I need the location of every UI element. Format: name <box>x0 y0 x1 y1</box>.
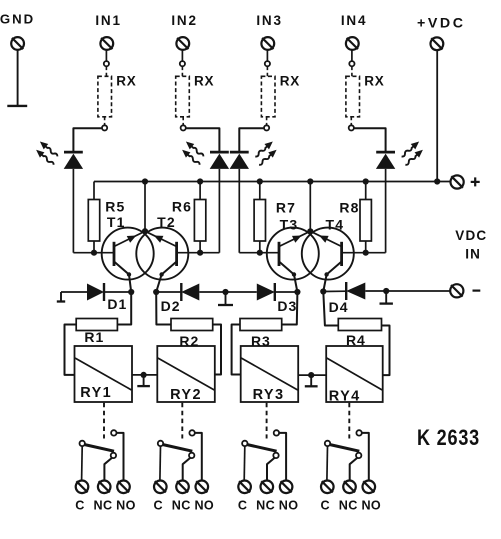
svg-text:R4: R4 <box>346 332 366 348</box>
svg-text:RX: RX <box>364 74 384 89</box>
svg-text:C: C <box>75 499 85 513</box>
svg-text:NC: NC <box>256 499 275 513</box>
svg-text:K 2633: K 2633 <box>417 425 480 450</box>
svg-text:RX: RX <box>116 74 136 89</box>
svg-text:T4: T4 <box>326 216 345 232</box>
svg-text:NO: NO <box>194 499 214 513</box>
svg-text:R8: R8 <box>339 200 359 216</box>
svg-text:R1: R1 <box>84 329 104 345</box>
svg-text:R7: R7 <box>276 200 296 216</box>
svg-text:IN3: IN3 <box>256 13 282 28</box>
svg-text:RY1: RY1 <box>80 385 112 401</box>
svg-text:NO: NO <box>116 499 136 513</box>
svg-text:NC: NC <box>94 499 113 513</box>
svg-text:IN4: IN4 <box>341 13 367 28</box>
svg-text:RX: RX <box>194 74 214 89</box>
svg-text:D3: D3 <box>277 298 297 314</box>
svg-text:NC: NC <box>339 499 358 513</box>
svg-text:VDC: VDC <box>455 228 487 243</box>
svg-text:R6: R6 <box>172 199 192 215</box>
svg-text:RY2: RY2 <box>170 387 202 403</box>
svg-text:D2: D2 <box>161 298 181 314</box>
svg-text:R5: R5 <box>105 199 125 215</box>
svg-text:GND: GND <box>0 12 35 27</box>
svg-text:R3: R3 <box>251 333 271 349</box>
svg-text:+VDC: +VDC <box>417 16 466 32</box>
svg-text:D4: D4 <box>329 299 349 315</box>
svg-text:RX: RX <box>280 74 300 89</box>
svg-text:NO: NO <box>279 499 299 513</box>
svg-text:R2: R2 <box>179 333 199 349</box>
svg-text:NC: NC <box>172 499 191 513</box>
svg-text:NO: NO <box>361 499 381 513</box>
svg-text:C: C <box>238 499 248 513</box>
svg-text:C: C <box>154 499 164 513</box>
svg-text:C: C <box>321 499 331 513</box>
svg-text:D1: D1 <box>107 296 127 312</box>
svg-text:IN2: IN2 <box>171 13 197 28</box>
svg-text:RY3: RY3 <box>253 387 285 403</box>
svg-text:RY4: RY4 <box>329 388 361 404</box>
svg-text:IN: IN <box>465 246 481 261</box>
svg-text:IN1: IN1 <box>95 13 121 28</box>
